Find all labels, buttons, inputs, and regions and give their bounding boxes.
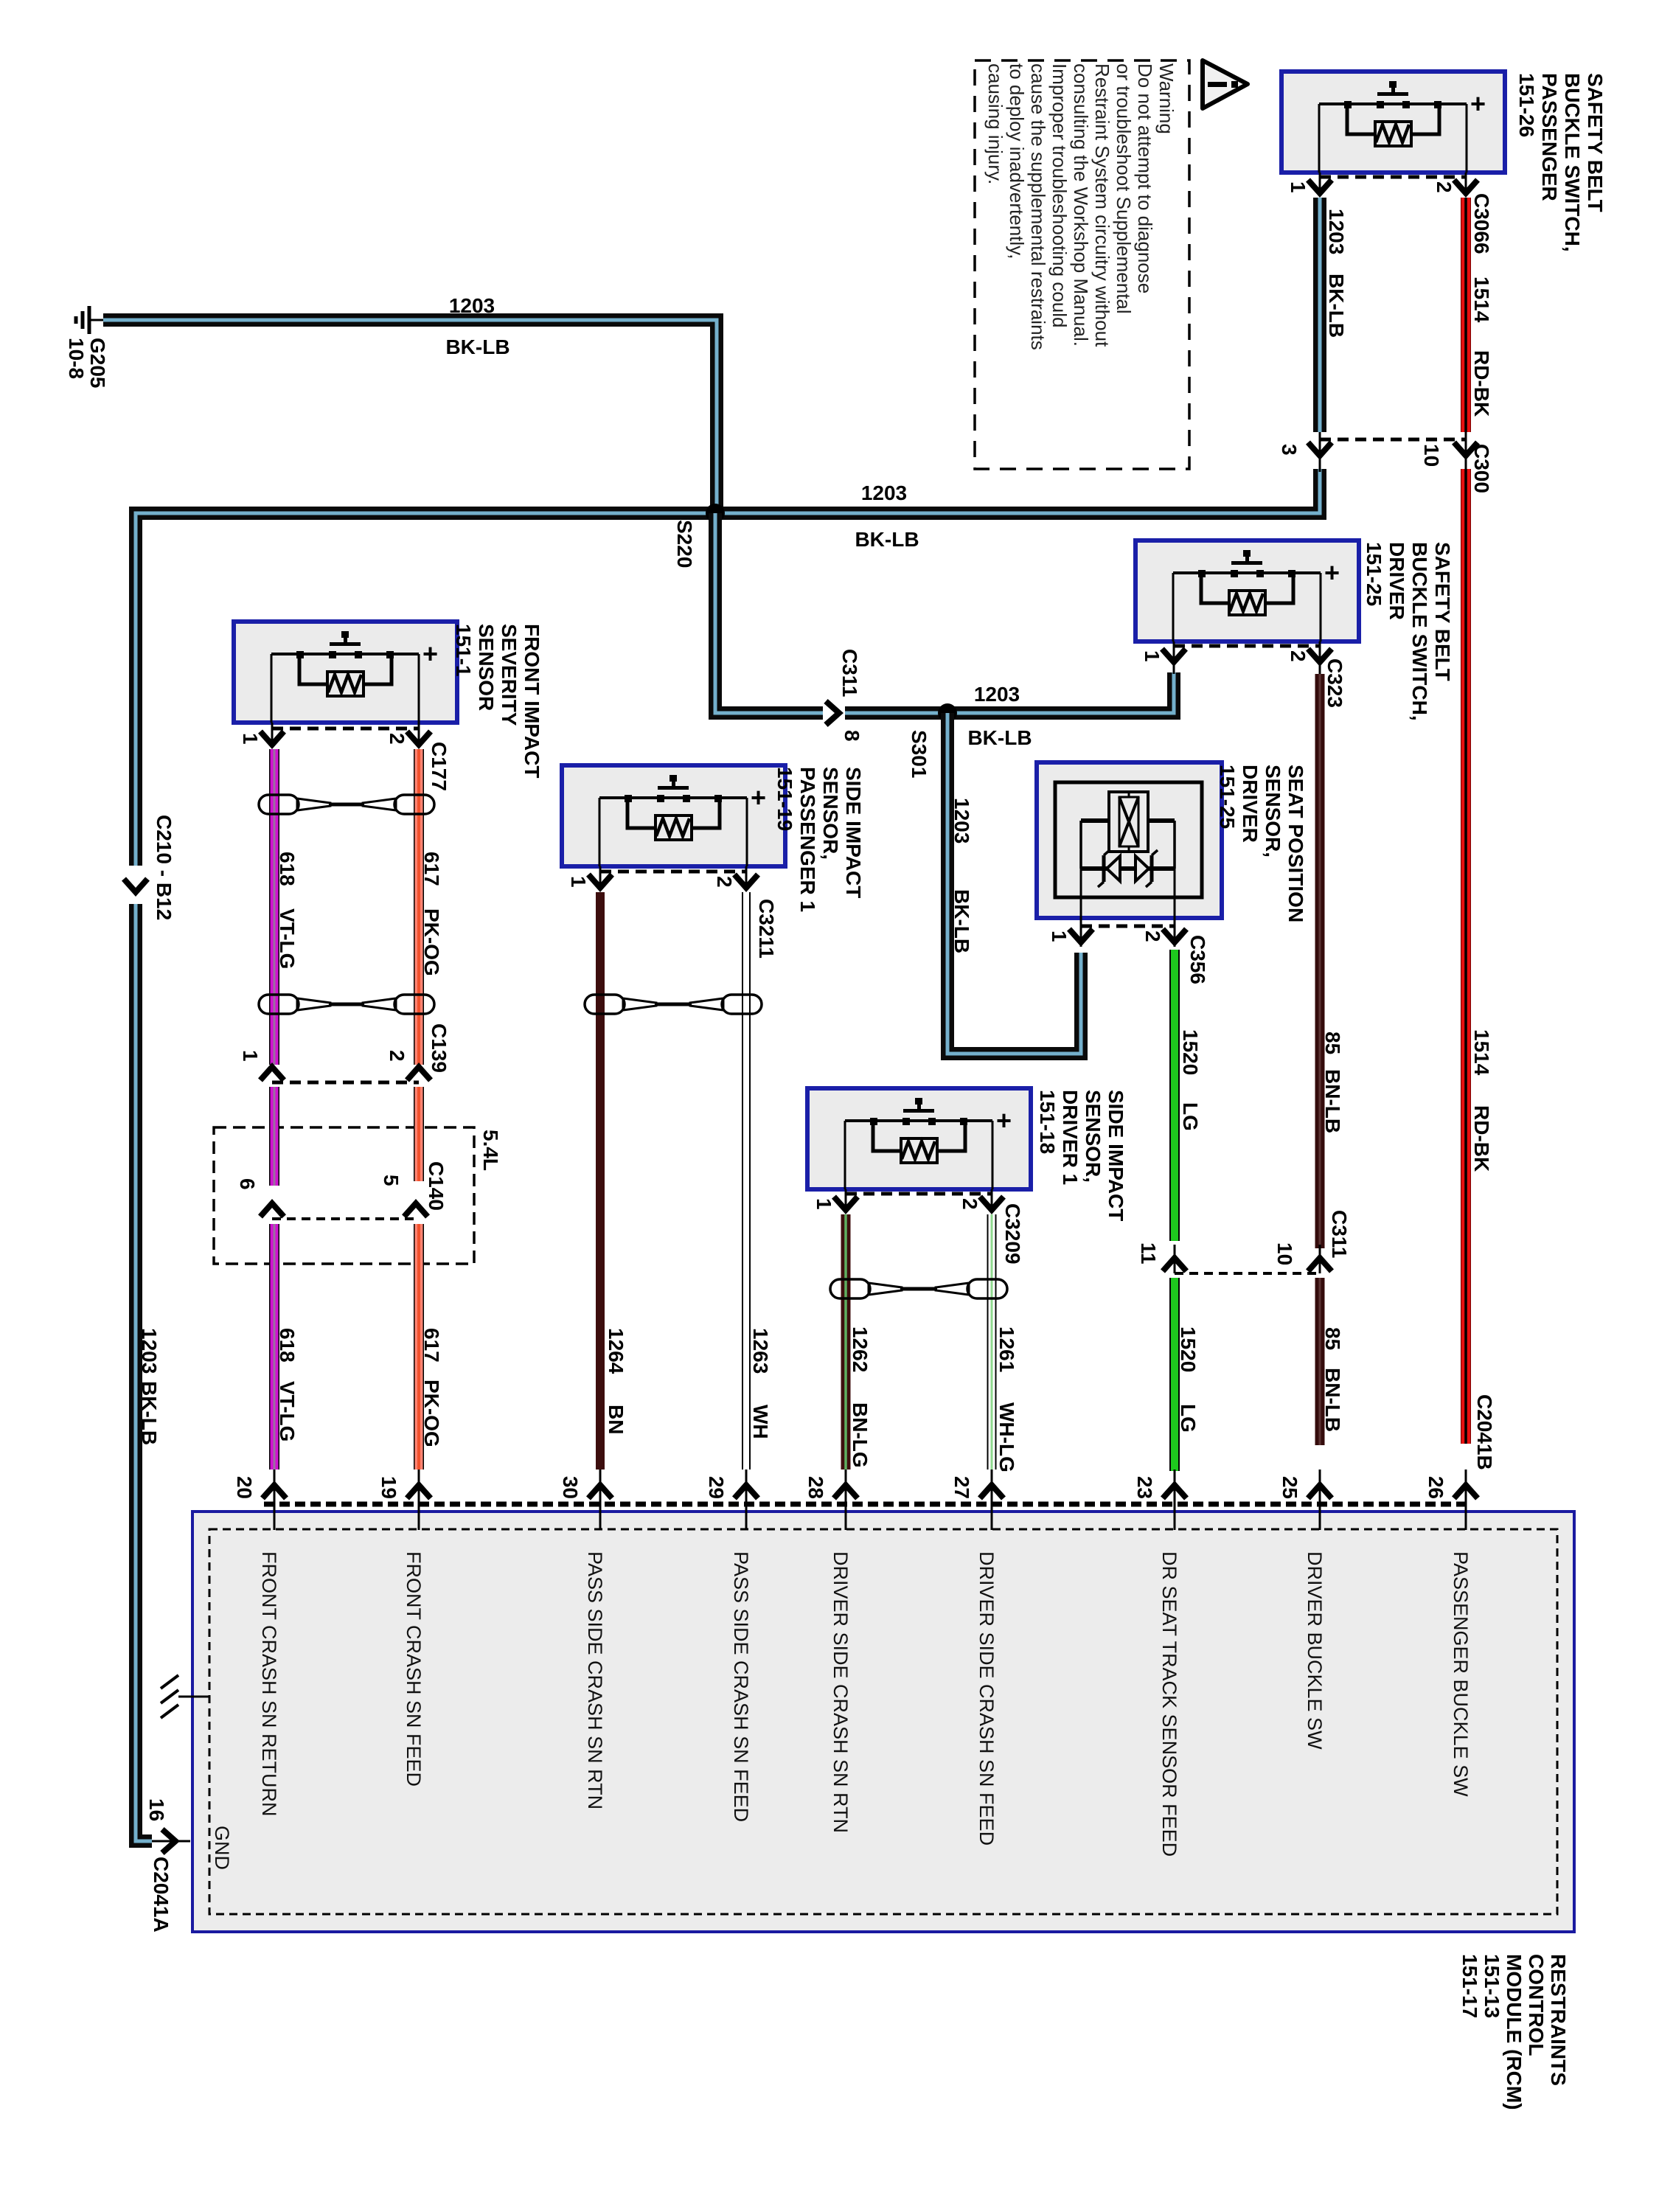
wire 1264 BN sensor to RCM pin 30 — [596, 892, 605, 1470]
svg-text:617: 617 — [420, 852, 443, 886]
svg-text:PASSENGER: PASSENGER — [1538, 73, 1561, 201]
wire 1203 BK-LB C311 to driver buckle switch — [845, 672, 1174, 713]
pin 1 arrow (C323) — [1162, 649, 1186, 662]
connector C3066 dashed line — [1320, 175, 1466, 179]
svg-text:DRIVER: DRIVER — [1239, 765, 1262, 843]
svg-text:C139: C139 — [428, 1023, 451, 1073]
component front impact severity sensor 151-1 — [234, 622, 457, 723]
pin 1 arrow (C3066) — [1308, 180, 1332, 193]
svg-text:DRIVER SIDE CRASH SN FEED: DRIVER SIDE CRASH SN FEED — [975, 1551, 998, 1846]
svg-text:1261: 1261 — [995, 1326, 1018, 1372]
svg-text:1203: 1203 — [138, 1328, 161, 1374]
svg-text:151-1: 151-1 — [452, 624, 475, 677]
connector C356 dashed line — [1081, 925, 1175, 928]
svg-text:+: + — [751, 782, 766, 813]
svg-text:PASS SIDE CRASH SN RTN: PASS SIDE CRASH SN RTN — [584, 1551, 606, 1809]
svg-text:PK-OG: PK-OG — [420, 908, 443, 976]
svg-text:FRONT CRASH SN RETURN: FRONT CRASH SN RETURN — [258, 1551, 280, 1817]
component safety belt buckle switch driver 151-25 — [1135, 540, 1359, 641]
svg-text:BK-LB: BK-LB — [855, 528, 919, 551]
svg-text:BK-LB: BK-LB — [1325, 274, 1348, 338]
pin 1 arrow (C3209) — [834, 1197, 858, 1210]
connector C311 dashed line (pins 11/10) — [1175, 1272, 1320, 1275]
wire 1262 BN-LG sensor to RCM pin 28 — [841, 1214, 851, 1470]
label safety belt buckle switch passenger — [1515, 73, 1607, 252]
component side impact sensor passenger 1 151-19 — [562, 765, 785, 866]
pin leads through C356 — [1080, 918, 1082, 947]
RCM pin 27 arrow — [980, 1485, 1004, 1498]
svg-text:C3066: C3066 — [1470, 193, 1493, 254]
pin 2 arrow (C177) — [407, 731, 431, 745]
svg-text:11: 11 — [1137, 1242, 1160, 1265]
svg-text:617: 617 — [420, 1328, 443, 1363]
pin 2 arrow (C323) — [1308, 649, 1332, 662]
warning triangle — [1203, 60, 1248, 108]
svg-text:SEAT POSITION: SEAT POSITION — [1284, 765, 1307, 922]
svg-text:27: 27 — [950, 1476, 973, 1499]
svg-text:23: 23 — [1133, 1476, 1156, 1499]
svg-text:LG: LG — [1177, 1404, 1200, 1433]
svg-text:1: 1 — [1048, 931, 1071, 942]
svg-text:DRIVER: DRIVER — [1385, 542, 1408, 620]
wire 1520 LG sensor to C311 pin 11 — [1169, 950, 1180, 1241]
label G205 10-8 — [65, 338, 109, 389]
svg-text:C300: C300 — [1470, 444, 1493, 493]
svg-text:25: 25 — [1279, 1476, 1301, 1499]
svg-text:C140: C140 — [425, 1161, 448, 1211]
svg-text:SENSOR,: SENSOR, — [1082, 1090, 1105, 1183]
pin 1 arrow (C356) — [1069, 929, 1093, 942]
svg-text:19: 19 — [378, 1476, 400, 1499]
svg-text:151-17: 151-17 — [1458, 1954, 1481, 2018]
component seat position sensor driver 151-25 — [1037, 762, 1222, 918]
svg-text:151-19: 151-19 — [773, 767, 796, 831]
label seat position sensor — [1216, 765, 1307, 922]
junction S220 — [706, 504, 725, 523]
svg-text:to deploy inadvertently,: to deploy inadvertently, — [1006, 63, 1028, 259]
RCM pin 25 arrow — [1308, 1485, 1332, 1498]
wire 618 VT-LG C140 to RCM pin 20 — [269, 1224, 279, 1470]
component safety belt buckle switch passenger 151-26 — [1281, 72, 1505, 173]
pin leads through C3209 — [845, 1189, 847, 1211]
label safety belt buckle switch driver — [1363, 542, 1454, 721]
svg-text:causing injury.: causing injury. — [984, 63, 1006, 184]
connector C2041 dashed line at RCM — [264, 1502, 1467, 1507]
svg-text:RESTRAINTS: RESTRAINTS — [1547, 1954, 1570, 2086]
pin 16 arrow — [162, 1829, 175, 1853]
svg-text:Improper troubleshooting could: Improper troubleshooting could — [1048, 63, 1071, 327]
svg-text:C311: C311 — [838, 649, 861, 697]
svg-text:SENSOR: SENSOR — [475, 624, 498, 711]
pin 5 arrow (C140) — [404, 1203, 428, 1217]
svg-text:1203: 1203 — [449, 294, 495, 317]
pin 1 arrow (C3211) — [588, 874, 612, 888]
RCM pin 28 arrow — [834, 1485, 858, 1498]
svg-text:2: 2 — [713, 876, 736, 888]
svg-text:PASSENGER 1: PASSENGER 1 — [796, 767, 819, 912]
component side impact sensor driver 1 151-18 — [807, 1088, 1031, 1189]
svg-text:3: 3 — [1278, 444, 1301, 456]
svg-text:29: 29 — [705, 1476, 728, 1499]
svg-text:1: 1 — [239, 733, 262, 745]
svg-text:VT-LG: VT-LG — [276, 908, 299, 969]
svg-text:2: 2 — [386, 733, 408, 745]
svg-text:C323: C323 — [1324, 658, 1346, 708]
label side impact sensor driver — [1036, 1090, 1127, 1221]
svg-text:BK-LB: BK-LB — [445, 335, 509, 358]
svg-text:or troubleshoot Supplemental: or troubleshoot Supplemental — [1113, 63, 1135, 314]
svg-text:RD-BK: RD-BK — [1470, 1105, 1493, 1172]
svg-text:C311: C311 — [1328, 1210, 1351, 1258]
pin 2 arrow (C3066) — [1454, 180, 1478, 193]
connector C210-B12 arrow on left bus — [124, 879, 147, 892]
svg-text:C3211: C3211 — [755, 899, 778, 959]
RCM pin 29 lead — [745, 1470, 748, 1530]
svg-text:1203: 1203 — [950, 798, 973, 844]
pin leads through C323 — [1173, 641, 1175, 664]
svg-text:G205: G205 — [86, 338, 109, 389]
wire 1203 BK-LB S301 to seat position sensor — [947, 713, 1081, 1054]
pin 10 arrow (C300) — [1454, 442, 1478, 456]
svg-text:1: 1 — [813, 1198, 835, 1210]
svg-text:151-25: 151-25 — [1216, 765, 1239, 829]
svg-text:DRIVER 1: DRIVER 1 — [1059, 1090, 1082, 1185]
svg-text:10-8: 10-8 — [65, 338, 88, 379]
connector C3209 dashed line — [846, 1192, 992, 1196]
svg-text:BUCKLE SWITCH,: BUCKLE SWITCH, — [1408, 542, 1431, 721]
svg-text:151-25: 151-25 — [1363, 542, 1385, 606]
wire 1520 LG C311 to RCM pin 23 — [1169, 1278, 1180, 1471]
svg-text:VT-LG: VT-LG — [276, 1381, 299, 1441]
svg-text:C177: C177 — [428, 742, 451, 791]
RCM pin 19 lead — [418, 1470, 420, 1530]
wire 1203 BK-LB S220 down to C311 row — [715, 513, 823, 713]
svg-text:1: 1 — [1141, 650, 1164, 662]
wire stub below pin10 — [1465, 456, 1467, 472]
svg-text:SEVERITY: SEVERITY — [498, 624, 521, 726]
svg-text:SENSOR,: SENSOR, — [1262, 765, 1284, 858]
pin 6 arrow (C140) — [260, 1203, 284, 1217]
connector C139 dashed line — [272, 1081, 419, 1085]
RCM internal ground symbol — [161, 1675, 209, 1718]
svg-text:5: 5 — [380, 1175, 403, 1186]
svg-text:1203: 1203 — [974, 683, 1020, 706]
svg-text:151-13: 151-13 — [1481, 1954, 1503, 2018]
svg-text:RD-BK: RD-BK — [1470, 350, 1493, 417]
pin leads through C300 — [1319, 432, 1321, 472]
wire 617 PK-OG C140 to RCM pin 19 — [414, 1224, 424, 1470]
wire stub below pin3 — [1319, 456, 1321, 472]
engine variant 5.4L dashed box — [214, 1127, 474, 1264]
svg-text:SAFETY BELT: SAFETY BELT — [1584, 73, 1607, 212]
svg-text:BN-LG: BN-LG — [849, 1402, 872, 1468]
svg-text:CONTROL: CONTROL — [1525, 1954, 1548, 2056]
warning note text — [984, 63, 1178, 350]
connector C177 dashed line — [272, 727, 419, 731]
svg-text:10: 10 — [1420, 444, 1443, 467]
pin leads through C3211 — [599, 866, 602, 889]
svg-text:618: 618 — [276, 1328, 299, 1363]
svg-text:26: 26 — [1425, 1476, 1447, 1499]
svg-text:10: 10 — [1273, 1242, 1296, 1265]
svg-text:6: 6 — [236, 1178, 259, 1190]
svg-text:BN-LB: BN-LB — [1321, 1069, 1344, 1133]
RCM pin 28 lead — [845, 1470, 847, 1530]
wire 1203 BK-LB buckle to C300 — [1313, 198, 1326, 432]
svg-text:C356: C356 — [1186, 935, 1209, 984]
svg-text:S301: S301 — [908, 730, 931, 778]
pin 11 arrow (C311) — [1163, 1258, 1186, 1271]
svg-text:28: 28 — [804, 1476, 827, 1499]
svg-text:BN-LB: BN-LB — [1321, 1368, 1344, 1432]
pin 10 arrow (C311) — [1308, 1258, 1332, 1271]
svg-text:Warning: Warning — [1155, 63, 1178, 134]
ground G205 chassis symbol — [76, 306, 103, 334]
module RCM box — [192, 1512, 1574, 1932]
pin11 stub — [1174, 1245, 1176, 1273]
svg-text:BK-LB: BK-LB — [967, 726, 1032, 749]
wire 85 BN-LB driver buckle to C311 — [1315, 674, 1325, 1248]
RCM pin 20 lead — [274, 1470, 276, 1530]
svg-text:C2041A: C2041A — [150, 1857, 173, 1933]
RCM pin 26 lead — [1465, 1470, 1467, 1530]
svg-text:2: 2 — [1141, 931, 1164, 942]
svg-text:1520: 1520 — [1179, 1029, 1202, 1075]
wire 85 BN-LB C311 to RCM pin 25 — [1315, 1278, 1325, 1445]
svg-text:1203: 1203 — [861, 481, 907, 504]
connector C140 dashed line — [272, 1217, 416, 1220]
pin leads through C177 — [271, 723, 274, 746]
label side impact sensor passenger — [773, 767, 865, 912]
module RCM inner dashed border — [209, 1529, 1557, 1914]
pin leads through C3066 — [1319, 173, 1321, 195]
wire 1263 WH sensor to RCM pin 29 — [742, 892, 751, 1470]
wire 617 PK-OG sensor to C139 — [414, 749, 424, 1065]
svg-text:WH: WH — [749, 1405, 772, 1439]
svg-text:WH-LG: WH-LG — [995, 1402, 1018, 1472]
pin 2 arrow (C3209) — [980, 1197, 1004, 1210]
wire 617 PK-OG C139 to C140 — [414, 1087, 424, 1181]
RCM pin 29 arrow — [734, 1485, 758, 1498]
label front impact severity sensor — [452, 624, 543, 778]
wire 1261 WH-LG sensor to RCM pin 27 — [987, 1214, 997, 1470]
twisted pair symbol (1262/1261) — [830, 1279, 1007, 1298]
wire 1203 BK-LB from G205 to junction S220 — [103, 320, 717, 513]
svg-text:FRONT IMPACT: FRONT IMPACT — [521, 624, 543, 778]
junction S301 — [938, 703, 957, 723]
svg-text:151-26: 151-26 — [1515, 73, 1538, 137]
svg-text:Restraint System circuitry wit: Restraint System circuitry without — [1091, 63, 1113, 347]
svg-text:2: 2 — [386, 1050, 408, 1062]
pin 1 arrow (C177) — [260, 731, 284, 745]
svg-text:DRIVER SIDE CRASH SN RTN: DRIVER SIDE CRASH SN RTN — [829, 1551, 852, 1833]
svg-text:+: + — [422, 639, 438, 669]
svg-text:1203: 1203 — [1325, 209, 1348, 254]
svg-text:2: 2 — [1287, 650, 1310, 662]
svg-text:1514: 1514 — [1470, 276, 1493, 323]
svg-text:DR SEAT TRACK SENSOR FEED: DR SEAT TRACK SENSOR FEED — [1158, 1551, 1180, 1857]
svg-text:consulting the Workshop Manual: consulting the Workshop Manual. — [1070, 63, 1092, 347]
pin 2 arrow (C3211) — [734, 874, 758, 888]
svg-text:1: 1 — [239, 1050, 262, 1062]
svg-text:1263: 1263 — [749, 1328, 772, 1374]
RCM pin 19 arrow — [407, 1485, 431, 1498]
svg-text:SIDE IMPACT: SIDE IMPACT — [1105, 1090, 1127, 1221]
label restraints control module — [1458, 1954, 1570, 2110]
svg-text:+: + — [1324, 557, 1340, 588]
svg-text:20: 20 — [233, 1476, 256, 1499]
connector C300 dashed line — [1320, 438, 1466, 442]
twisted pair symbol (618/617 upper) — [259, 795, 434, 814]
svg-text:BK-LB: BK-LB — [138, 1381, 161, 1445]
svg-text:GND: GND — [211, 1826, 233, 1870]
pin 2 arrow (C356) — [1163, 929, 1186, 942]
svg-text:30: 30 — [559, 1476, 582, 1499]
svg-text:S220: S220 — [673, 520, 696, 568]
svg-text:16: 16 — [145, 1798, 168, 1821]
svg-text:Do not attempt to diagnose: Do not attempt to diagnose — [1134, 63, 1156, 293]
svg-text:85: 85 — [1321, 1327, 1344, 1350]
pin 2 arrow (C139) — [407, 1067, 431, 1080]
RCM pin 30 arrow — [588, 1485, 612, 1498]
warning note dashed box — [975, 60, 1189, 469]
wire 618 VT-LG C139 to C140 — [269, 1087, 279, 1186]
svg-text:C2041B: C2041B — [1473, 1394, 1496, 1470]
svg-text:FRONT CRASH SN FEED: FRONT CRASH SN FEED — [403, 1551, 425, 1787]
svg-text:C210 - B12: C210 - B12 — [153, 815, 175, 920]
svg-text:BUCKLE SWITCH,: BUCKLE SWITCH, — [1561, 73, 1584, 252]
svg-text:1262: 1262 — [849, 1326, 872, 1372]
svg-text:+: + — [1470, 88, 1486, 119]
svg-text:151-18: 151-18 — [1036, 1090, 1059, 1154]
RCM pin 27 lead — [991, 1470, 993, 1530]
svg-text:SENSOR,: SENSOR, — [819, 767, 842, 860]
pin10 stub — [1319, 1245, 1321, 1273]
svg-text:8: 8 — [841, 730, 863, 742]
RCM pin 20 arrow — [262, 1485, 286, 1498]
RCM pin 26 arrow — [1454, 1485, 1478, 1498]
svg-text:1: 1 — [567, 876, 590, 888]
svg-text:1520: 1520 — [1177, 1326, 1200, 1372]
svg-text:2: 2 — [1433, 181, 1455, 193]
svg-text:1264: 1264 — [605, 1328, 627, 1374]
connector C323 dashed line — [1174, 644, 1320, 648]
twisted pair symbol (1264/1263) — [585, 995, 762, 1014]
svg-text:5.4L: 5.4L — [479, 1130, 502, 1171]
wire 1514 RD-BK C300 to RCM — [1461, 469, 1471, 1444]
driver buckle pin1 stub — [1173, 662, 1175, 674]
svg-text:+: + — [996, 1105, 1012, 1135]
svg-text:DRIVER BUCKLE SW: DRIVER BUCKLE SW — [1304, 1551, 1326, 1750]
RCM pin 23 arrow — [1163, 1485, 1186, 1498]
svg-text:BK-LB: BK-LB — [950, 889, 973, 953]
svg-text:BN: BN — [605, 1405, 627, 1434]
connector C3211 dashed line — [600, 870, 746, 874]
pin 1 arrow (C139) — [260, 1067, 284, 1080]
wire 1514 RD-BK buckle to C300 — [1461, 198, 1471, 432]
svg-text:PASSENGER BUCKLE SW: PASSENGER BUCKLE SW — [1450, 1551, 1472, 1797]
svg-text:2: 2 — [959, 1198, 981, 1210]
svg-text:PASS SIDE CRASH SN FEED: PASS SIDE CRASH SN FEED — [730, 1551, 752, 1822]
svg-text:PK-OG: PK-OG — [420, 1380, 443, 1447]
wire 1203 BK-LB left bus lower — [136, 904, 152, 1841]
svg-text:1: 1 — [1287, 181, 1310, 193]
wire 1203 BK-LB bus S220 left to A-column — [136, 469, 1320, 866]
twisted pair symbol (618/617 lower) — [259, 995, 434, 1014]
RCM pin 30 lead — [599, 1470, 602, 1530]
connector C311 arrow (pin 8) — [826, 701, 839, 725]
pin 3 arrow (C300) — [1308, 442, 1332, 456]
svg-text:LG: LG — [1179, 1102, 1202, 1131]
wire 618 VT-LG sensor to C139 — [269, 749, 279, 1065]
svg-text:SIDE IMPACT: SIDE IMPACT — [842, 767, 865, 898]
RCM pin 23 lead — [1174, 1470, 1176, 1530]
svg-text:cause the supplemental restrai: cause the supplemental restraints — [1027, 63, 1049, 350]
svg-text:SAFETY BELT: SAFETY BELT — [1431, 542, 1454, 681]
svg-text:1514: 1514 — [1470, 1029, 1493, 1076]
svg-text:618: 618 — [276, 852, 299, 886]
svg-text:MODULE (RCM): MODULE (RCM) — [1503, 1954, 1526, 2110]
RCM pin 25 lead — [1319, 1470, 1321, 1530]
svg-text:C3209: C3209 — [1001, 1203, 1024, 1265]
lead into RCM pin 16 — [152, 1840, 190, 1843]
svg-text:85: 85 — [1321, 1032, 1344, 1054]
